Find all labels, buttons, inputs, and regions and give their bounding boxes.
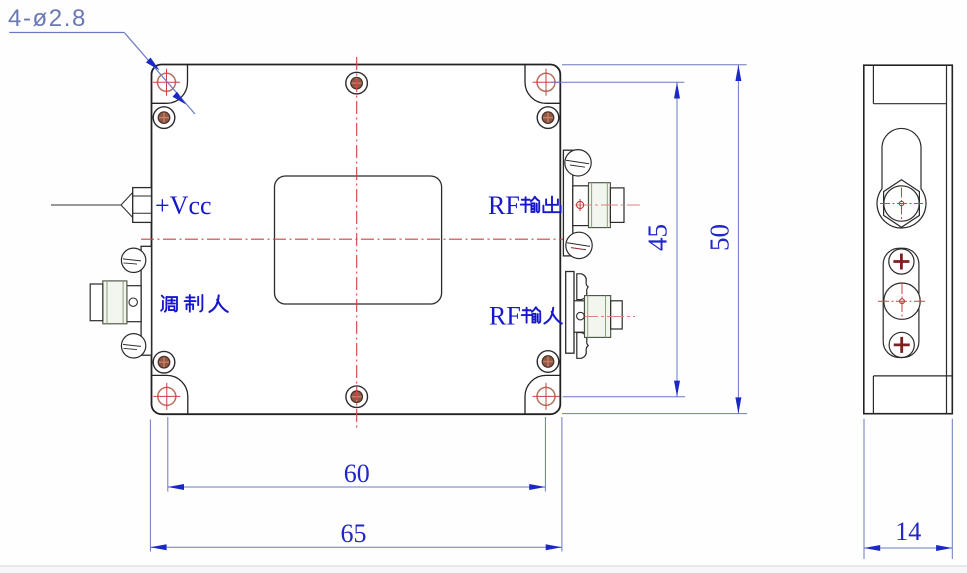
SMA hex nut end-on (884, 180, 920, 228)
side screw top (889, 249, 914, 274)
corner lug boundary TL (152, 65, 188, 104)
mounting hole TR (533, 69, 560, 96)
RF-out flange pin hole (577, 199, 584, 211)
+Vcc feedthrough cone (121, 193, 133, 218)
dim 60 extension lines (167, 417, 169, 492)
svg-text:RF: RF (489, 302, 521, 331)
RF-in centerline (581, 316, 635, 318)
label glyph shu (RF-out) (521, 197, 539, 213)
dim 14 extension lines (863, 419, 865, 559)
RF-in connector bottom knurled nut (577, 333, 588, 359)
svg-text:50: 50 (705, 224, 735, 251)
label glyph diao (mod-in) (161, 296, 177, 312)
RF-in connector neck (574, 301, 585, 332)
dim 45 extension lines (551, 81, 684, 83)
corner lug boundary BL (152, 375, 188, 414)
modulation-in connector flange (141, 246, 151, 355)
RF-out centerline (575, 204, 640, 206)
dim 50 line (737, 65, 739, 414)
+Vcc feedthrough lead wire (51, 204, 121, 206)
svg-text:4-ø2.8: 4-ø2.8 (8, 5, 87, 32)
modulation-in connector top screw (121, 248, 145, 272)
dim 14 line (864, 547, 952, 549)
RF-out connector neck (573, 186, 589, 226)
lid screw BL (153, 351, 175, 373)
dim 65 line (150, 546, 562, 548)
side view top cap (872, 65, 874, 104)
lid screw TR (537, 107, 559, 129)
hole callout arrow 2 (173, 92, 187, 105)
connector boss keyhole (877, 128, 926, 228)
svg-text:+Vcc: +Vcc (155, 191, 212, 220)
SMA nut circle (884, 186, 919, 221)
side center hole (878, 283, 925, 320)
RF-out connector nut (589, 183, 611, 228)
lid screw top middle (346, 72, 368, 94)
side boss obround (883, 248, 919, 357)
mounting hole TL (153, 69, 180, 96)
+Vcc feedthrough hex body (133, 188, 152, 223)
modulation-in connector nut (103, 281, 127, 324)
vertical centerline (356, 57, 358, 428)
side screw bottom (889, 332, 914, 357)
lid screw BR (537, 351, 559, 373)
horizontal centerline (141, 238, 567, 240)
svg-text:60: 60 (344, 459, 370, 488)
dim 65 extension lines (149, 420, 151, 552)
RF-in connector flange (566, 272, 574, 354)
side view inner edge right (946, 65, 948, 414)
mounting hole BR (533, 383, 560, 410)
svg-text:RF: RF (488, 191, 520, 220)
hole callout leader (9, 32, 124, 34)
enclosure body outline (152, 65, 561, 415)
lid screw TL (153, 107, 175, 129)
dim 50 extension lines (562, 64, 747, 66)
modulation-in connector bottom screw (121, 334, 145, 358)
svg-text:45: 45 (643, 224, 673, 251)
RF-in connector nut (585, 296, 611, 338)
svg-text:14: 14 (895, 517, 921, 546)
corner lug boundary BR (525, 375, 560, 414)
svg-text:65: 65 (341, 519, 367, 548)
SMA crosshair (880, 188, 923, 222)
dim 60 line (168, 486, 546, 488)
modulation-in connector tip (90, 284, 103, 321)
side view body (864, 65, 953, 414)
RF-in connector top knurled nut (577, 274, 588, 300)
lid screw bottom middle (346, 386, 368, 408)
RF-out connector tip (610, 188, 624, 223)
modulation-in connector neck (127, 286, 141, 322)
hole callout arrow 1 (146, 58, 160, 71)
label glyph shu (RF-in) (522, 307, 540, 323)
dim 45 line (676, 82, 678, 397)
label glyph ru (RF-in) (544, 308, 561, 324)
label glyph ru (mod-in) (209, 295, 227, 312)
label glyph chu (RF-out) (543, 196, 560, 212)
RF-out connector flange (563, 150, 572, 256)
RF-in flange pin hole (577, 312, 585, 320)
mounting hole BL (153, 383, 180, 410)
RF-out connector bottom screw (566, 232, 592, 258)
side view bottom cap (872, 376, 874, 414)
RF-in connector tip (611, 301, 623, 329)
lid recess rounded rectangle (275, 176, 442, 304)
corner lug boundary TR (525, 65, 560, 104)
page bottom edge line (0, 566, 967, 573)
modulation-in flange pin hole (129, 298, 137, 306)
label glyph zhi (mod-in) (185, 295, 203, 312)
RF-out connector top screw (565, 150, 591, 176)
